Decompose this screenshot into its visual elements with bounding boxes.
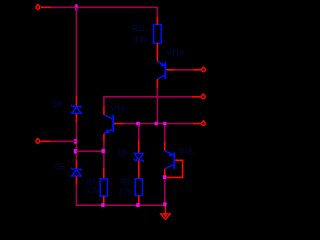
terminal T5: [202, 122, 206, 126]
wire: T3 pin red stub: [193, 69, 201, 71]
svg-text:R11: R11: [132, 24, 145, 33]
resistor R2: [135, 179, 142, 196]
wire: T2 to left rail magenta: [51, 140, 77, 142]
diode D5 (zener, cathode up): [72, 167, 82, 176]
wire: T1 pin red stub: [41, 6, 51, 8]
VT18 emitter arrow (points into bar = PNP): [159, 61, 164, 66]
resistor R3: [100, 179, 107, 196]
wire: VT18 base to T3 magenta: [175, 69, 194, 71]
wire: D9 top pin red: [138, 141, 140, 154]
junction J6 on base net at VT18 collector: [155, 122, 158, 125]
wire: VT4 emitter magenta down: [103, 142, 105, 168]
wire: base net y=123.6 magenta: [124, 123, 193, 125]
wire: VT4 collector corner, magenta down then y=96.8 horizontal to T4: [104, 97, 192, 107]
diode D8 (zener, cathode up): [72, 105, 82, 114]
junction J5 on base net at D9: [136, 122, 140, 125]
transistor VT5 (PNP, diode connected): [165, 151, 175, 169]
wire: R3 bottom pin red: [103, 196, 105, 204]
svg-text:R2: R2: [120, 178, 129, 187]
wire: D5 top pin red: [75, 160, 77, 169]
wire: left rail between diodes magenta: [75, 123, 77, 161]
wire: VT18 collector down to base line (crosses y=96.8 line): [156, 88, 158, 124]
svg-text:D8: D8: [53, 100, 62, 109]
wire: VT5 emitter pin red: [164, 142, 166, 151]
junction on top rail at left vertical: [75, 4, 77, 10]
wire: horizontal link rail to R3 line at y=151: [76, 150, 103, 152]
resistor R11: [154, 25, 162, 44]
wire: VT5 collector to bottom rail magenta: [164, 179, 166, 205]
wire: R3 top pin red: [103, 168, 105, 179]
transistor VT18 (PNP): [157, 61, 165, 79]
junction J10 R2 to bottom rail: [136, 203, 139, 207]
wire: D9 bottom pin red to R2: [138, 161, 140, 179]
wire: VT5 base loop magenta tail: [165, 176, 167, 178]
transistor VT4 (NPN, mirrored: pins left, base right): [104, 115, 113, 134]
wire: T2 pin red stub: [41, 140, 51, 142]
wire: left rail vertical (magenta upper part): [75, 7, 77, 96]
wire: D8 bottom pin red: [75, 114, 77, 123]
svg-text:D9: D9: [118, 149, 127, 158]
svg-text:D5: D5: [55, 163, 65, 172]
wire: T5 pin red stub: [193, 123, 201, 125]
wire: R11 top pin red: [156, 17, 158, 25]
wire: VT18 base pin red: [166, 69, 174, 71]
terminal T2 (left input): [36, 139, 40, 143]
wire: D9 top magenta from base net: [138, 126, 140, 141]
wire: D5 bottom pin red: [75, 176, 77, 184]
wire: VT4 collector pin red: [103, 107, 105, 115]
terminal T3: [202, 68, 206, 72]
svg-text:VT4: VT4: [111, 105, 125, 114]
terminal T4: [201, 95, 205, 99]
svg-text:100: 100: [134, 35, 147, 44]
diode D9 (zener, cathode down): [134, 154, 143, 162]
svg-text:2.7k: 2.7k: [118, 187, 132, 196]
wire: VT4 base pin red: [114, 123, 124, 125]
wire: VT18 collector pin red: [156, 79, 158, 88]
wire: R11 bottom pin red to VT18 emitter: [156, 43, 158, 62]
junction J9 R3 to bottom rail: [101, 203, 104, 207]
wire: VT4 emitter pin red: [103, 134, 105, 142]
wire: R2 bottom pin red: [138, 196, 140, 204]
wire: T4 pin red stub: [192, 96, 201, 98]
wire: left rail lower magenta to bottom rail corner: [76, 185, 164, 206]
junction J8 VT5 collector/base tie: [163, 175, 166, 179]
junction J3 at (76,151): [74, 149, 77, 153]
terminal T1 (top left input): [36, 5, 40, 9]
wire: VT5 collector pin red: [164, 169, 166, 176]
svg-text:R3: R3: [86, 178, 95, 187]
VT5 emitter arrow (points into bar = PNP): [168, 151, 173, 156]
junction J11 ground node: [163, 202, 166, 206]
junction J2 at (76,141): [74, 139, 77, 143]
VT4 emitter arrow (points away from bar = NPN): [104, 129, 110, 134]
wire: VT5 base loop red: [167, 160, 182, 177]
ground: [161, 206, 171, 220]
junction J7 on base net at VT5 emitter: [163, 122, 166, 125]
svg-text:3.2k: 3.2k: [85, 187, 99, 196]
svg-text:VT18: VT18: [166, 49, 184, 58]
wire: D8 top pin red: [75, 97, 77, 107]
wire: top rail horizontal to corner: [51, 7, 157, 16]
junction J4 at (104,151): [102, 149, 105, 153]
svg-text:VT5: VT5: [179, 148, 193, 157]
wire: VT5 emitter feed magenta from base net: [164, 125, 166, 142]
